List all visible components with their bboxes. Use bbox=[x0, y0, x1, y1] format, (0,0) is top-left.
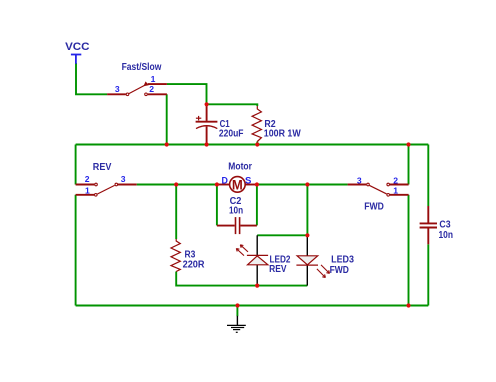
svg-text:REV: REV bbox=[93, 162, 112, 173]
svg-text:1: 1 bbox=[393, 186, 398, 196]
svg-text:220uF: 220uF bbox=[219, 128, 244, 139]
svg-text:3: 3 bbox=[357, 176, 362, 186]
svg-text:LED3: LED3 bbox=[331, 255, 354, 266]
svg-text:1: 1 bbox=[85, 185, 90, 195]
svg-text:10n: 10n bbox=[439, 230, 454, 241]
svg-text:FWD: FWD bbox=[364, 201, 384, 212]
svg-text:1: 1 bbox=[151, 74, 156, 84]
svg-text:REV: REV bbox=[269, 264, 287, 275]
svg-text:Motor: Motor bbox=[228, 162, 252, 173]
svg-text:2: 2 bbox=[85, 174, 90, 184]
svg-text:2: 2 bbox=[149, 84, 154, 94]
svg-text:D: D bbox=[222, 175, 229, 186]
svg-text:FWD: FWD bbox=[330, 265, 349, 276]
svg-text:3: 3 bbox=[115, 84, 120, 94]
svg-text:Fast/Slow: Fast/Slow bbox=[122, 62, 162, 73]
svg-text:C3: C3 bbox=[439, 219, 451, 230]
svg-text:VCC: VCC bbox=[65, 41, 89, 53]
svg-text:M: M bbox=[232, 177, 243, 193]
svg-text:220R: 220R bbox=[183, 260, 206, 271]
svg-text:100R 1W: 100R 1W bbox=[264, 128, 301, 139]
svg-text:10n: 10n bbox=[229, 206, 243, 217]
svg-text:2: 2 bbox=[393, 176, 398, 186]
svg-text:S: S bbox=[245, 175, 251, 186]
svg-text:3: 3 bbox=[121, 174, 126, 184]
